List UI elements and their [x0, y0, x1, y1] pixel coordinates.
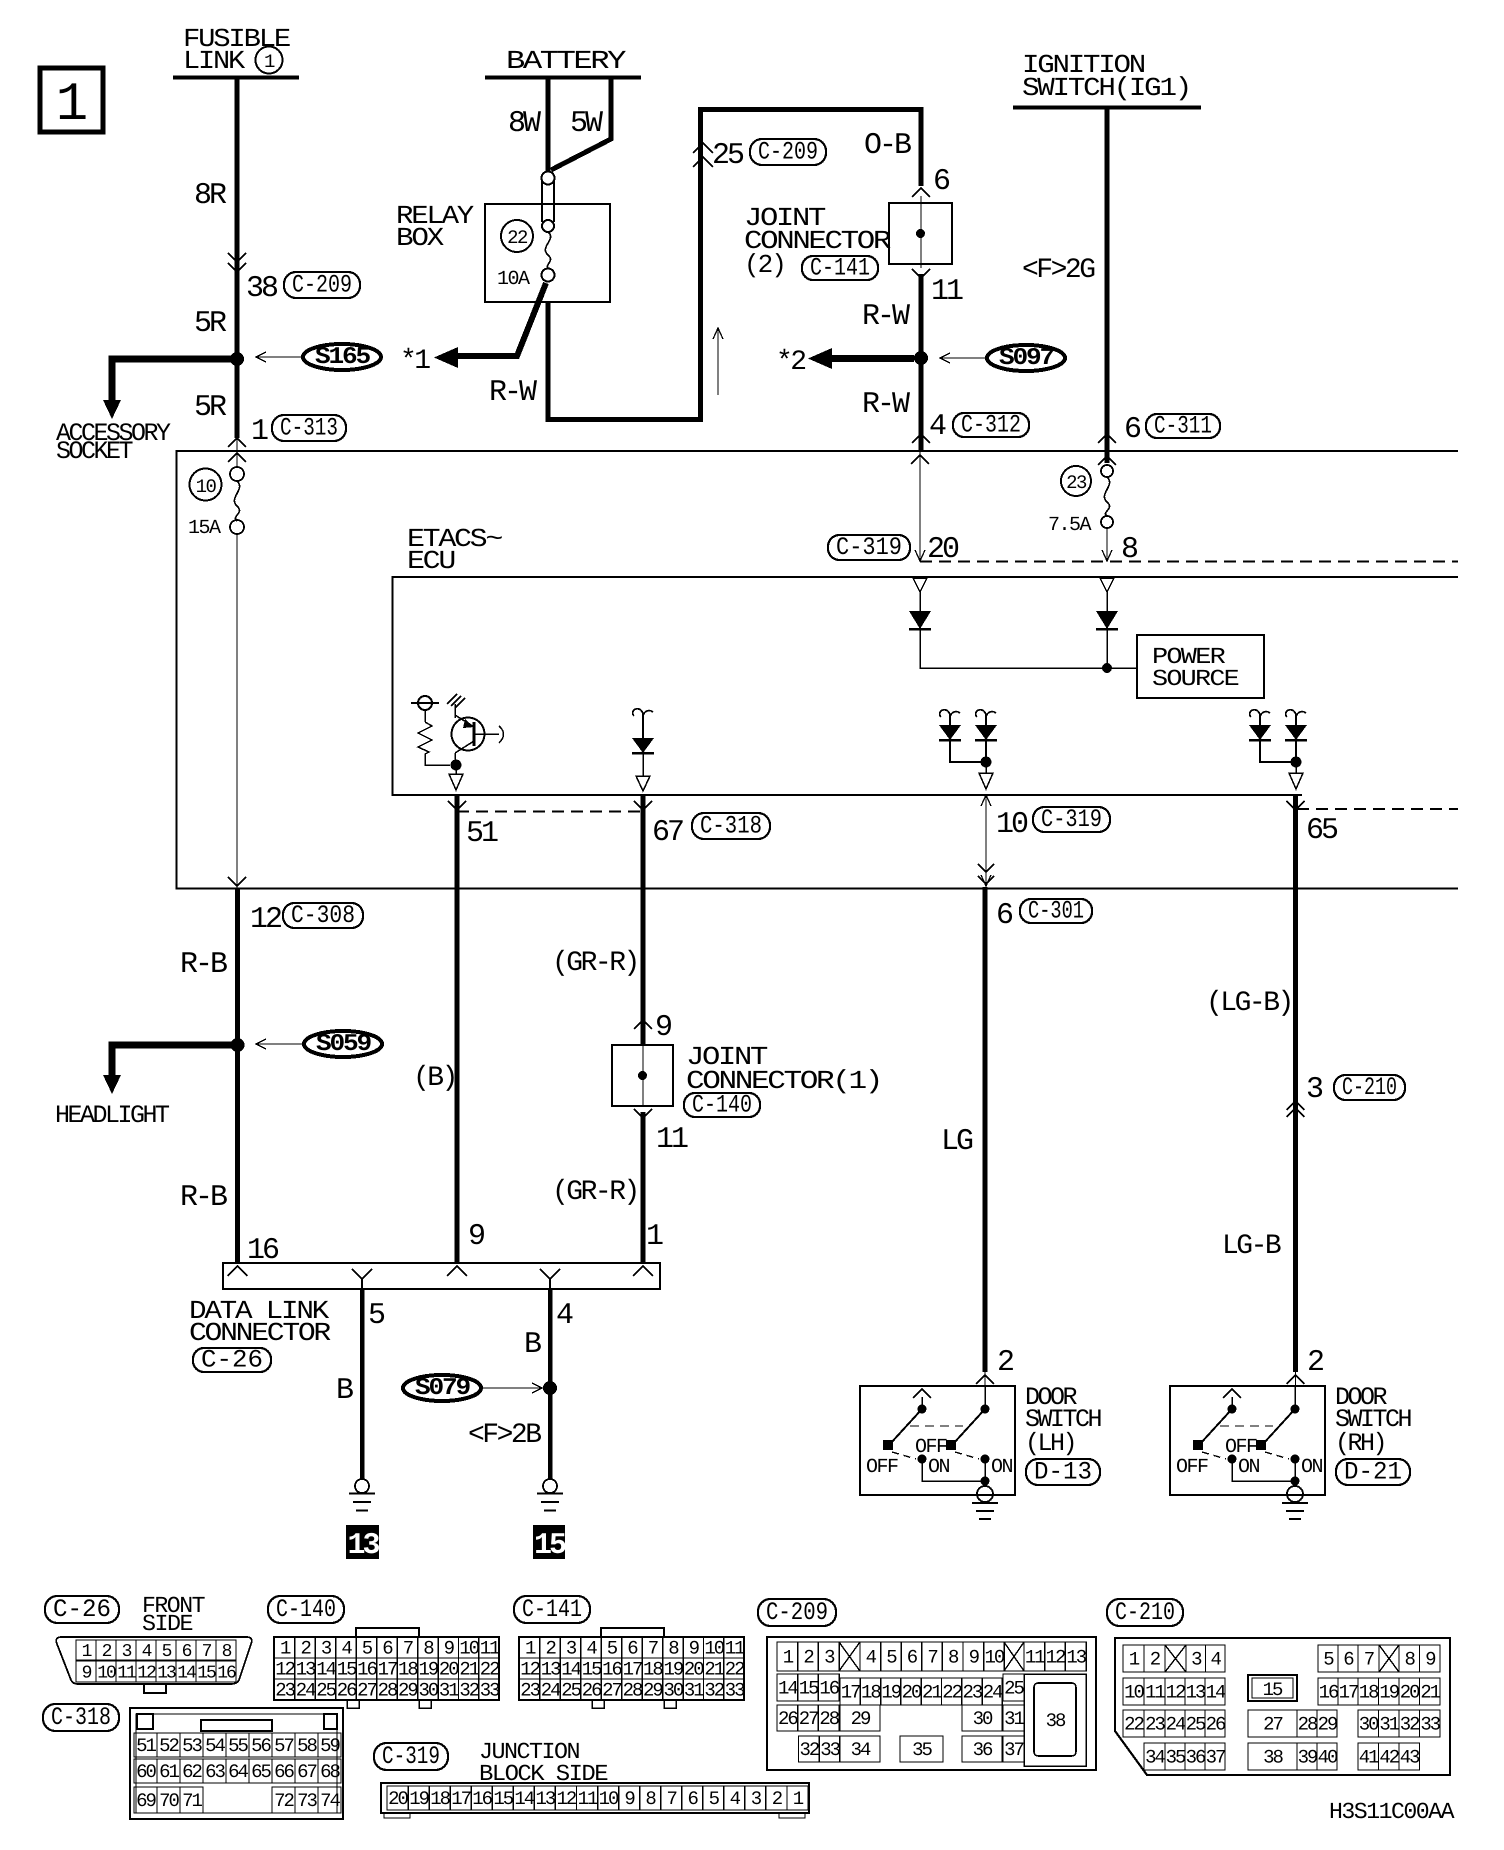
- internal supply hatch: [454, 704, 456, 718]
- svg-text:34: 34: [1145, 1747, 1165, 1769]
- svg-text:20: 20: [902, 1682, 922, 1704]
- svg-text:10: 10: [1124, 1682, 1144, 1704]
- svg-text:4: 4: [929, 410, 946, 444]
- svg-text:56: 56: [251, 1735, 271, 1757]
- door switch LH: [860, 1386, 1015, 1495]
- svg-text:60: 60: [136, 1761, 156, 1783]
- svg-text:(2): (2): [744, 250, 785, 280]
- svg-text:24: 24: [541, 1680, 561, 1702]
- svg-text:SIDE: SIDE: [142, 1611, 193, 1637]
- svg-text:6: 6: [907, 1647, 918, 1669]
- svg-text:36: 36: [973, 1739, 993, 1761]
- svg-text:25: 25: [561, 1680, 581, 1702]
- svg-text:12: 12: [1166, 1682, 1186, 1704]
- svg-text:ECU: ECU: [407, 546, 454, 576]
- node S165 junction: [230, 352, 244, 366]
- svg-text:21: 21: [459, 1659, 479, 1681]
- svg-text:26: 26: [337, 1680, 357, 1702]
- svg-text:<F>2B: <F>2B: [468, 1420, 541, 1451]
- svg-text:42: 42: [1379, 1747, 1399, 1769]
- svg-text:27: 27: [357, 1680, 376, 1702]
- connector table C-26: [45, 1596, 119, 1623]
- svg-text:11: 11: [1145, 1682, 1165, 1704]
- svg-text:25: 25: [1186, 1714, 1206, 1736]
- svg-text:9: 9: [1425, 1649, 1436, 1671]
- svg-text:R-B: R-B: [180, 948, 227, 982]
- svg-text:17: 17: [623, 1659, 642, 1681]
- svg-text:6: 6: [627, 1638, 638, 1660]
- svg-text:R-B: R-B: [180, 1181, 227, 1215]
- svg-text:3: 3: [566, 1638, 577, 1660]
- svg-text:7: 7: [927, 1647, 937, 1669]
- svg-text:12: 12: [137, 1664, 156, 1684]
- svg-text:29: 29: [1318, 1714, 1338, 1736]
- svg-text:69: 69: [136, 1790, 156, 1812]
- node to power source: [1102, 663, 1112, 673]
- svg-text:14: 14: [177, 1664, 196, 1684]
- connector table C-319 strip: [374, 1743, 448, 1770]
- fusible link bus bar: [173, 76, 299, 80]
- svg-text:15: 15: [1263, 1679, 1283, 1701]
- double diode pin 10: [940, 710, 960, 722]
- fusible link symbol in relay box: [542, 172, 555, 185]
- svg-text:12: 12: [250, 903, 281, 937]
- svg-text:19: 19: [1379, 1682, 1399, 1704]
- svg-text:1: 1: [793, 1788, 804, 1810]
- svg-text:16: 16: [1319, 1682, 1339, 1704]
- svg-text:19: 19: [409, 1788, 429, 1810]
- transistor Q1: [452, 718, 485, 751]
- svg-text:23: 23: [1145, 1714, 1165, 1736]
- svg-text:43: 43: [1400, 1747, 1420, 1769]
- svg-text:5: 5: [607, 1638, 618, 1660]
- svg-text:13: 13: [535, 1788, 555, 1810]
- svg-text:8: 8: [222, 1642, 232, 1662]
- svg-text:15: 15: [197, 1664, 216, 1684]
- svg-text:11: 11: [656, 1123, 688, 1157]
- wire R-B: [235, 888, 240, 1263]
- svg-text:4: 4: [341, 1638, 352, 1660]
- svg-text:54: 54: [205, 1735, 225, 1757]
- svg-text:6: 6: [1343, 1649, 1354, 1671]
- svg-text:22: 22: [1124, 1714, 1144, 1736]
- svg-text:2: 2: [1307, 1346, 1323, 1380]
- svg-text:5: 5: [362, 1638, 373, 1660]
- svg-text:LG-B: LG-B: [1222, 1231, 1281, 1262]
- wire to accessory socket: [112, 359, 237, 400]
- svg-text:8R: 8R: [194, 179, 227, 213]
- wire to headlight: [112, 1045, 238, 1075]
- svg-text:10: 10: [97, 1664, 116, 1684]
- diode from pin 20: [913, 578, 927, 592]
- svg-text:ON: ON: [928, 1456, 950, 1479]
- svg-text:15: 15: [493, 1788, 513, 1810]
- svg-text:5: 5: [368, 1299, 385, 1333]
- svg-text:17: 17: [841, 1682, 860, 1704]
- svg-text:S097: S097: [999, 345, 1054, 372]
- svg-text:13: 13: [1066, 1647, 1086, 1669]
- svg-text:9: 9: [689, 1638, 700, 1660]
- svg-text:5: 5: [709, 1788, 720, 1810]
- svg-text:SOURCE: SOURCE: [1152, 666, 1239, 692]
- svg-text:31: 31: [1379, 1714, 1399, 1736]
- wire (GR-R) lower: [641, 1112, 646, 1263]
- svg-text:25: 25: [712, 139, 744, 173]
- svg-text:26: 26: [582, 1680, 602, 1702]
- svg-text:C-140: C-140: [276, 1595, 336, 1624]
- svg-text:LG: LG: [941, 1125, 973, 1159]
- junction block box: [177, 451, 1459, 889]
- svg-text:15: 15: [534, 1529, 566, 1563]
- svg-text:28: 28: [1298, 1714, 1318, 1736]
- svg-text:13: 13: [157, 1664, 176, 1684]
- svg-text:19: 19: [418, 1659, 438, 1681]
- svg-text:R-W: R-W: [489, 376, 537, 410]
- svg-text:20: 20: [388, 1788, 408, 1810]
- svg-text:16: 16: [602, 1659, 622, 1681]
- circled 22: [501, 220, 533, 252]
- svg-text:2: 2: [300, 1638, 311, 1660]
- svg-text:13: 13: [541, 1659, 561, 1681]
- svg-text:55: 55: [228, 1735, 248, 1757]
- svg-text:C-301: C-301: [1028, 897, 1084, 926]
- svg-text:11: 11: [480, 1638, 500, 1660]
- svg-text:1: 1: [1129, 1649, 1140, 1671]
- svg-text:11: 11: [1025, 1647, 1045, 1669]
- svg-text:1: 1: [280, 1638, 291, 1660]
- svg-text:33: 33: [1420, 1714, 1440, 1736]
- svg-text:59: 59: [320, 1735, 340, 1757]
- dashed ecu boundary right: [1297, 808, 1458, 810]
- svg-text:10: 10: [196, 476, 217, 498]
- svg-text:61: 61: [159, 1761, 179, 1783]
- svg-text:7: 7: [202, 1642, 212, 1662]
- wire 5W: [551, 79, 611, 170]
- svg-text:C-319: C-319: [1041, 805, 1102, 834]
- svg-text:4: 4: [142, 1642, 152, 1662]
- svg-text:8W: 8W: [508, 107, 541, 141]
- svg-text:36: 36: [1186, 1747, 1206, 1769]
- svg-text:(GR-R): (GR-R): [552, 948, 638, 979]
- wire LG: [983, 887, 988, 1372]
- svg-text:1: 1: [525, 1638, 536, 1660]
- svg-text:9: 9: [655, 1011, 671, 1045]
- svg-text:R-W: R-W: [862, 388, 910, 422]
- wire *2: [832, 355, 914, 362]
- svg-text:6: 6: [1124, 413, 1141, 447]
- svg-text:13: 13: [296, 1659, 316, 1681]
- svg-text:9: 9: [969, 1647, 980, 1669]
- svg-text:1: 1: [646, 1220, 663, 1254]
- svg-text:29: 29: [851, 1708, 871, 1730]
- svg-text:63: 63: [205, 1761, 225, 1783]
- svg-text:23: 23: [520, 1680, 540, 1702]
- svg-text:20: 20: [684, 1659, 704, 1681]
- svg-text:57: 57: [274, 1735, 293, 1757]
- svg-text:26: 26: [1206, 1714, 1226, 1736]
- svg-text:C-308: C-308: [291, 901, 355, 930]
- svg-text:16: 16: [357, 1659, 377, 1681]
- svg-text:1: 1: [783, 1647, 794, 1669]
- svg-text:B: B: [336, 1374, 353, 1408]
- svg-text:(LG-B): (LG-B): [1206, 988, 1292, 1019]
- svg-text:27: 27: [799, 1708, 818, 1730]
- svg-text:19: 19: [663, 1659, 683, 1681]
- svg-text:30: 30: [1359, 1714, 1379, 1736]
- svg-text:(GR-R): (GR-R): [552, 1177, 638, 1208]
- svg-text:58: 58: [297, 1735, 317, 1757]
- svg-text:2: 2: [803, 1647, 814, 1669]
- svg-text:17: 17: [1339, 1682, 1358, 1704]
- svg-text:C-210: C-210: [1342, 1073, 1397, 1102]
- svg-text:66: 66: [274, 1761, 294, 1783]
- svg-text:24: 24: [296, 1680, 316, 1702]
- svg-text:4: 4: [556, 1299, 573, 1333]
- connector table C-318: [43, 1704, 119, 1731]
- svg-text:8: 8: [948, 1647, 959, 1669]
- svg-text:7: 7: [648, 1638, 658, 1660]
- wire LG-B: [1293, 795, 1298, 1372]
- wire R-W to splice S097: [919, 274, 924, 450]
- splice S165: [303, 344, 381, 370]
- svg-text:6: 6: [182, 1642, 192, 1662]
- page tab 1: [40, 68, 103, 132]
- svg-text:27: 27: [1263, 1714, 1282, 1736]
- svg-text:9: 9: [444, 1638, 455, 1660]
- svg-text:33: 33: [480, 1680, 500, 1702]
- svg-text:*2: *2: [776, 347, 805, 378]
- svg-text:37: 37: [1004, 1739, 1023, 1761]
- ground ref tab 13: [346, 1525, 379, 1559]
- svg-text:C-26: C-26: [201, 1346, 263, 1375]
- svg-text:C-140: C-140: [692, 1091, 752, 1120]
- svg-text:16: 16: [472, 1788, 492, 1810]
- svg-text:38: 38: [246, 272, 278, 306]
- svg-text:(B): (B): [413, 1063, 456, 1094]
- wire 8W: [546, 79, 551, 172]
- svg-text:8: 8: [668, 1638, 679, 1660]
- svg-text:R-W: R-W: [862, 300, 910, 334]
- svg-text:S165: S165: [315, 344, 371, 371]
- svg-text:D-13: D-13: [1034, 1458, 1092, 1487]
- connector table C-209: [758, 1599, 836, 1626]
- svg-text:O-B: O-B: [864, 129, 911, 163]
- svg-text:33: 33: [725, 1680, 745, 1702]
- svg-text:10: 10: [459, 1638, 479, 1660]
- relay box: [485, 204, 610, 302]
- svg-text:28: 28: [623, 1680, 643, 1702]
- svg-text:9: 9: [82, 1664, 92, 1684]
- svg-text:17: 17: [378, 1659, 397, 1681]
- svg-text:7.5A: 7.5A: [1048, 514, 1092, 537]
- svg-text:16: 16: [819, 1678, 839, 1700]
- wire (B): [455, 795, 460, 1263]
- svg-text:OFF: OFF: [866, 1456, 898, 1479]
- svg-text:10: 10: [996, 808, 1028, 842]
- svg-text:C-141: C-141: [522, 1595, 582, 1624]
- svg-text:B: B: [524, 1328, 541, 1362]
- power source box: [1137, 635, 1264, 698]
- svg-text:34: 34: [851, 1739, 871, 1761]
- svg-text:53: 53: [182, 1735, 202, 1757]
- svg-text:LINK: LINK: [183, 46, 246, 76]
- svg-text:15: 15: [799, 1678, 819, 1700]
- svg-text:ON: ON: [1301, 1456, 1323, 1479]
- svg-text:6: 6: [382, 1638, 393, 1660]
- svg-text:18: 18: [861, 1682, 881, 1704]
- svg-text:18: 18: [1359, 1682, 1379, 1704]
- svg-text:32: 32: [704, 1680, 724, 1702]
- connector table C-210: [1107, 1599, 1183, 1626]
- svg-text:C-312: C-312: [961, 411, 1021, 440]
- svg-text:73: 73: [297, 1790, 317, 1812]
- svg-text:21: 21: [704, 1659, 724, 1681]
- svg-text:39: 39: [1298, 1747, 1318, 1769]
- svg-text:67: 67: [652, 816, 683, 850]
- svg-text:SWITCH(IG1): SWITCH(IG1): [1022, 73, 1190, 103]
- svg-text:38: 38: [1046, 1710, 1066, 1732]
- svg-text:14: 14: [778, 1678, 798, 1700]
- svg-text:23: 23: [962, 1682, 982, 1704]
- ground at DLC pin 4: [543, 1479, 557, 1493]
- splice S059 node: [231, 1038, 245, 1052]
- svg-text:24: 24: [1166, 1714, 1186, 1736]
- svg-text:11: 11: [117, 1664, 136, 1684]
- svg-text:5: 5: [162, 1642, 172, 1662]
- svg-text:6: 6: [687, 1788, 698, 1810]
- emitter node: [451, 760, 462, 771]
- svg-text:64: 64: [228, 1761, 248, 1783]
- connector C-319 pin 20: [828, 535, 910, 560]
- svg-text:30: 30: [973, 1708, 993, 1730]
- big cell 38: [1024, 1674, 1086, 1766]
- svg-text:3: 3: [321, 1638, 332, 1660]
- dashed junction block internal line: [920, 561, 1458, 563]
- svg-text:29: 29: [398, 1680, 418, 1702]
- svg-text:15: 15: [337, 1659, 357, 1681]
- svg-text:25: 25: [316, 1680, 336, 1702]
- pin 67 / C-318: [634, 801, 652, 810]
- svg-text:17: 17: [451, 1788, 470, 1810]
- svg-text:38: 38: [1263, 1747, 1283, 1769]
- svg-text:24: 24: [983, 1682, 1003, 1704]
- svg-text:H3S11C00AA: H3S11C00AA: [1329, 1799, 1455, 1825]
- svg-text:2: 2: [997, 1346, 1013, 1380]
- svg-text:21: 21: [1420, 1682, 1440, 1704]
- svg-text:40: 40: [1318, 1747, 1338, 1769]
- svg-text:ON: ON: [1238, 1456, 1260, 1479]
- svg-text:8: 8: [645, 1788, 656, 1810]
- svg-text:11: 11: [578, 1788, 598, 1810]
- pin 65: [1287, 801, 1305, 810]
- door switch RH: [1170, 1386, 1325, 1495]
- svg-text:S079: S079: [415, 1375, 470, 1402]
- svg-text:72: 72: [274, 1790, 294, 1812]
- joint connector (1) C-140: [612, 1045, 673, 1106]
- svg-text:9: 9: [468, 1220, 484, 1254]
- svg-text:35: 35: [1166, 1747, 1186, 1769]
- svg-text:11: 11: [931, 275, 963, 309]
- svg-text:CONNECTOR: CONNECTOR: [189, 1318, 331, 1348]
- svg-text:33: 33: [820, 1739, 840, 1761]
- svg-text:37: 37: [1206, 1747, 1225, 1769]
- svg-text:35: 35: [912, 1739, 932, 1761]
- svg-text:*1: *1: [400, 346, 430, 377]
- splice S079: [403, 1375, 481, 1401]
- svg-text:31: 31: [684, 1680, 704, 1702]
- svg-text:C-209: C-209: [758, 138, 818, 167]
- svg-text:14: 14: [514, 1788, 534, 1810]
- svg-text:13: 13: [1186, 1682, 1206, 1704]
- base lead with hook: [474, 733, 499, 735]
- splice S097: [987, 345, 1065, 371]
- pin 10 / C-319: [985, 795, 987, 886]
- fuse 10 (15A): [230, 467, 244, 481]
- svg-text:HEADLIGHT: HEADLIGHT: [55, 1101, 170, 1130]
- svg-text:<F>2G: <F>2G: [1022, 255, 1095, 286]
- direction arrow: [717, 330, 719, 395]
- ground at DLC pin 5: [355, 1479, 369, 1493]
- svg-text:1: 1: [56, 75, 88, 136]
- svg-text:41: 41: [1359, 1747, 1379, 1769]
- svg-text:OFF: OFF: [1176, 1456, 1208, 1479]
- svg-text:23: 23: [275, 1680, 295, 1702]
- svg-text:C-210: C-210: [1115, 1598, 1175, 1627]
- connector table C-140: [268, 1596, 344, 1623]
- svg-text:13: 13: [347, 1529, 379, 1563]
- svg-text:C-26: C-26: [53, 1595, 111, 1624]
- svg-text:31: 31: [439, 1680, 459, 1702]
- svg-text:29: 29: [643, 1680, 663, 1702]
- svg-text:5R: 5R: [194, 391, 227, 425]
- connector table C-141: [514, 1596, 590, 1623]
- svg-text:9: 9: [624, 1788, 635, 1810]
- svg-text:12: 12: [1046, 1647, 1066, 1669]
- diode from pin 8: [1100, 578, 1114, 592]
- svg-text:31: 31: [1004, 1708, 1024, 1730]
- svg-text:C-209: C-209: [292, 271, 352, 300]
- transistor output circuit pin 51: [418, 696, 432, 710]
- svg-text:19: 19: [881, 1682, 901, 1704]
- svg-text:71: 71: [182, 1790, 202, 1812]
- svg-text:68: 68: [320, 1761, 340, 1783]
- svg-text:12: 12: [556, 1788, 576, 1810]
- svg-text:14: 14: [1206, 1682, 1226, 1704]
- svg-text:25: 25: [1004, 1678, 1024, 1700]
- svg-text:(RH): (RH): [1335, 1429, 1385, 1458]
- svg-text:7: 7: [1364, 1649, 1374, 1671]
- svg-text:32: 32: [1400, 1714, 1420, 1736]
- svg-text:51: 51: [136, 1735, 156, 1757]
- wire 8R from fusible link: [235, 79, 240, 357]
- svg-text:6: 6: [933, 165, 950, 199]
- svg-text:4: 4: [866, 1647, 877, 1669]
- svg-text:3: 3: [1191, 1649, 1202, 1671]
- svg-text:8: 8: [1404, 1649, 1415, 1671]
- svg-text:C-318: C-318: [51, 1703, 111, 1732]
- svg-text:74: 74: [320, 1790, 340, 1812]
- svg-text:10A: 10A: [497, 268, 530, 291]
- svg-text:30: 30: [663, 1680, 683, 1702]
- svg-text:28: 28: [819, 1708, 839, 1730]
- svg-text:2: 2: [102, 1642, 112, 1662]
- svg-text:28: 28: [378, 1680, 398, 1702]
- svg-text:3: 3: [122, 1642, 132, 1662]
- svg-text:BOX: BOX: [396, 223, 445, 253]
- svg-text:C-311: C-311: [1154, 412, 1212, 441]
- pin 51: [448, 801, 466, 810]
- svg-text:11: 11: [725, 1638, 745, 1660]
